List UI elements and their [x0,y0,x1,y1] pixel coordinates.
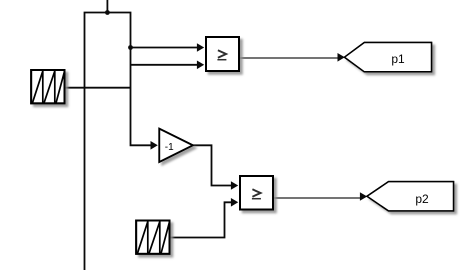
svg-text:p1: p1 [391,52,405,66]
svg-text:p2: p2 [415,192,429,206]
svg-text:-1: -1 [165,142,174,153]
